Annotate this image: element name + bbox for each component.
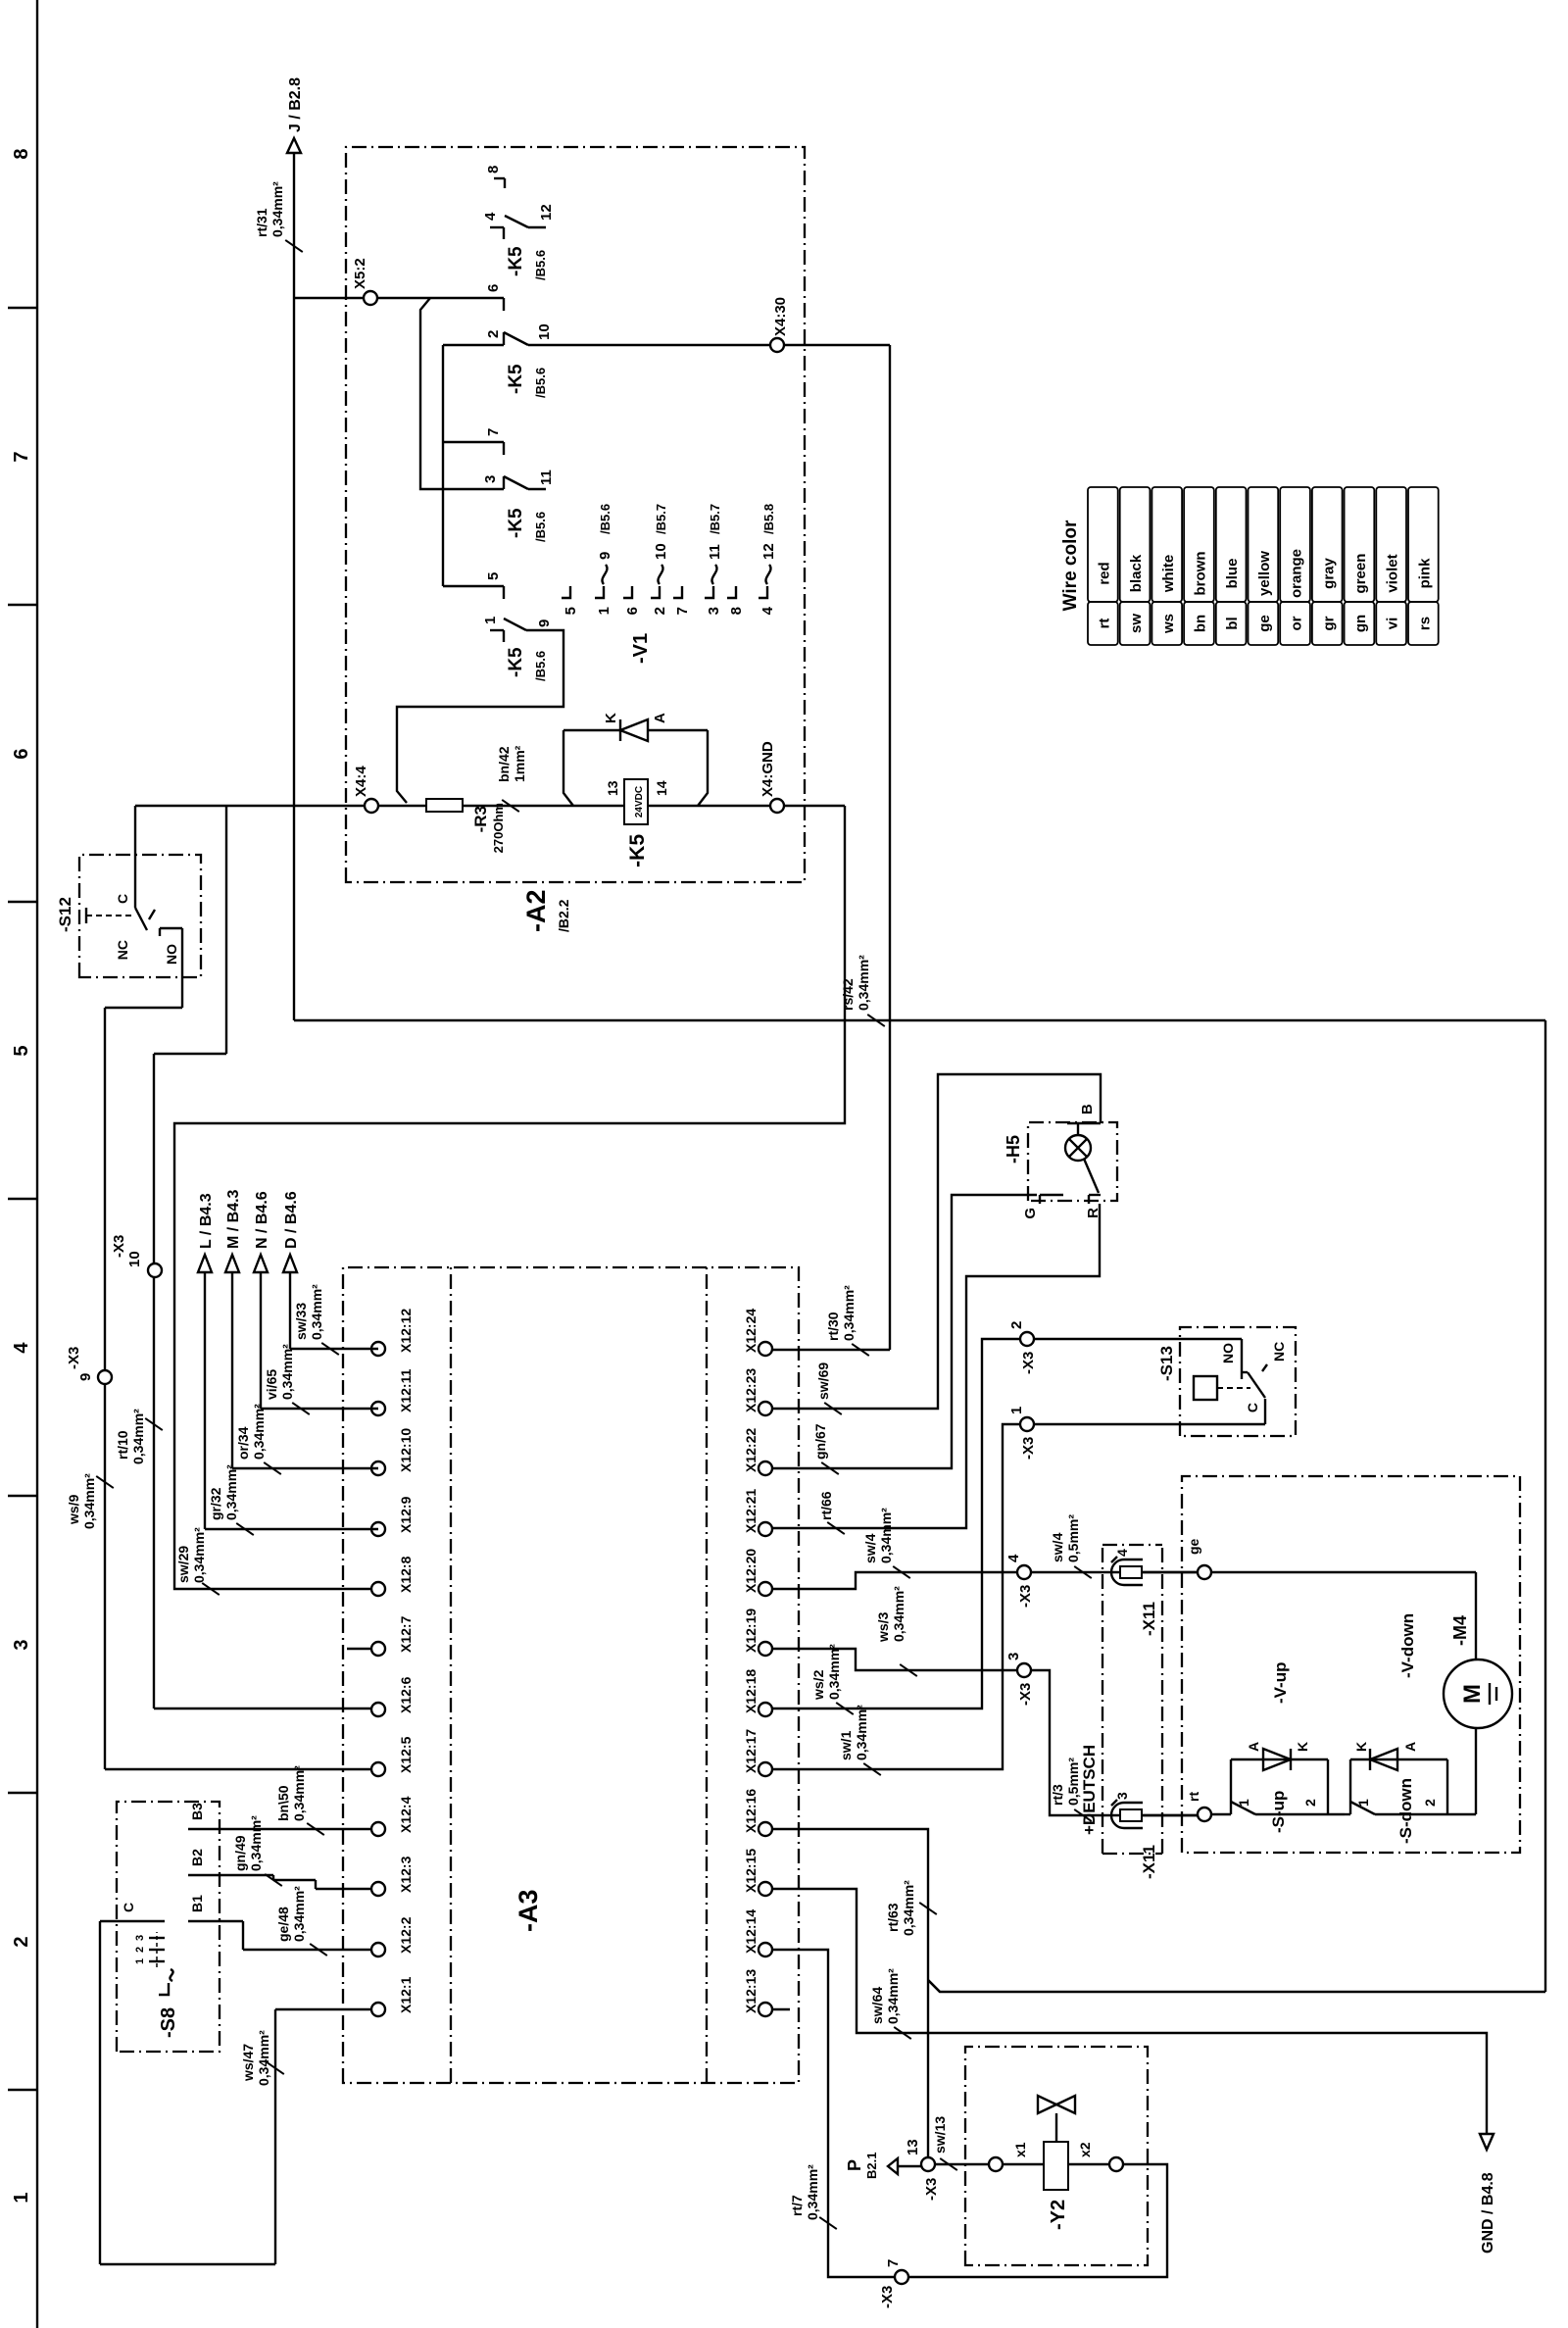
svg-text:0,34mm²: 0,34mm² — [805, 2164, 820, 2220]
svg-text:0,34mm²: 0,34mm² — [251, 1404, 267, 1460]
svg-text:-Y2: -Y2 — [1048, 2200, 1069, 2230]
wire gauge mark ws/9 0,34mm2 — [66, 1473, 114, 1529]
valve symbol — [1038, 2096, 1075, 2142]
terminal X12:7 stub — [347, 1648, 371, 1650]
svg-text:1: 1 — [11, 2192, 32, 2203]
terminal X4:GND — [759, 741, 784, 813]
svg-text:-K5: -K5 — [506, 508, 526, 538]
wire S12 NO to X3:9 (ws/9) — [105, 928, 378, 1769]
module box A2 (dash-dot) — [346, 147, 805, 882]
terminal X3:9 — [66, 1347, 112, 1384]
wire 24V bus (X4:4 to X4:GND) — [135, 805, 845, 807]
svg-text:X12:20: X12:20 — [743, 1549, 759, 1593]
wire X12:21 to H5 R (rt/66) — [772, 1204, 1100, 1528]
terminal X4:4 — [353, 766, 378, 813]
svg-text:ge: ge — [1256, 615, 1273, 632]
svg-text:7: 7 — [11, 451, 32, 462]
svg-text:rt/7: rt/7 — [789, 2195, 805, 2216]
wire 24V supply to J/B2.8 — [293, 153, 295, 1020]
switch S-down — [1345, 1799, 1476, 1814]
svg-text:-H5: -H5 — [1004, 1135, 1023, 1164]
svg-text:sw/1: sw/1 — [838, 1730, 854, 1760]
wire link pins 5-7-2 of K5 — [443, 345, 504, 586]
svg-text:4: 4 — [1114, 1549, 1130, 1557]
sensor S8 pins 1 2 3 — [134, 1932, 165, 1967]
svg-text:-X3: -X3 — [879, 2286, 896, 2308]
arrow L / B4.3 — [198, 1193, 215, 1272]
svg-text:0,34mm²: 0,34mm² — [885, 1968, 901, 2024]
wire gauge mark rt/3 0,5mm2 — [1050, 1758, 1092, 1821]
module box A3 (dash-dot) — [343, 1267, 799, 2083]
wire gauge mark rt/63 0,34mm2 — [885, 1880, 937, 1936]
svg-text:x2: x2 — [1077, 2142, 1093, 2157]
svg-text:A: A — [652, 713, 668, 723]
svg-text:-A2: -A2 — [521, 889, 551, 932]
svg-text:rs: rs — [1416, 617, 1433, 630]
svg-text:ws: ws — [1160, 614, 1177, 634]
diode V-down (K top, A bottom) — [1353, 1742, 1418, 1770]
relay socket V1 pin diagram — [562, 504, 777, 615]
svg-text:B1: B1 — [189, 1895, 205, 1912]
switch S13 NC tick — [1262, 1342, 1287, 1371]
solenoid coil Y2 — [1003, 2142, 1109, 2190]
svg-text:3: 3 — [706, 607, 722, 615]
svg-text:vi: vi — [1385, 618, 1401, 630]
svg-text:B: B — [1079, 1104, 1096, 1114]
svg-text:X12:10: X12:10 — [398, 1428, 414, 1472]
wire gauge mark bn/42 1mm2 — [496, 745, 527, 812]
wire gauge mark gr/32 0,34mm2 — [208, 1464, 254, 1535]
label -X11 (pin 3) — [1140, 1845, 1158, 1879]
svg-text:ws/9: ws/9 — [66, 1494, 81, 1525]
wire X12:22 to H5 G (gn/67) — [772, 1195, 1037, 1468]
label -R3 270Ohm — [471, 803, 506, 853]
relay contact K5 3/11 — [482, 470, 555, 489]
svg-text:5: 5 — [11, 1045, 32, 1056]
svg-text:X12:7: X12:7 — [398, 1615, 414, 1653]
switch box S13 (dash-dot) — [1180, 1327, 1296, 1436]
wire S8 C terminal (ws/47) to X12:1 — [100, 1903, 371, 2264]
lamp box H5 (dash-dot) — [1028, 1122, 1117, 1201]
svg-text:D / B4.6: D / B4.6 — [283, 1191, 300, 1249]
svg-text:0,5mm²: 0,5mm² — [1065, 1514, 1081, 1562]
svg-text:X12:13: X12:13 — [743, 1969, 759, 2013]
label -Y2 — [1048, 2200, 1069, 2230]
svg-text:X12:19: X12:19 — [743, 1609, 759, 1653]
svg-text:white: white — [1160, 555, 1177, 593]
svg-text:X12:15: X12:15 — [743, 1849, 759, 1893]
lamp H5 G terminal — [1022, 1195, 1063, 1219]
svg-text:orange: orange — [1289, 549, 1305, 598]
label -S12 — [56, 897, 74, 932]
switch S13 sensor square — [1194, 1376, 1217, 1400]
svg-text:+DEUTSCH: +DEUTSCH — [1080, 1745, 1099, 1835]
label -V1 — [630, 633, 652, 664]
switch S13 actuator dashed — [1217, 1387, 1250, 1389]
svg-text:rt/30: rt/30 — [825, 1312, 841, 1341]
wire gauge mark sw/29 0,34mm2 — [175, 1527, 220, 1595]
svg-text:A: A — [1246, 1742, 1261, 1752]
wire gauge mark rt/10 0,34mm2 — [115, 1409, 163, 1464]
svg-text:X12:18: X12:18 — [743, 1669, 759, 1713]
arrow GND / B4.8 — [1480, 2134, 1496, 2254]
svg-text:gn/49: gn/49 — [232, 1835, 248, 1871]
svg-text:X12:24: X12:24 — [743, 1309, 759, 1353]
svg-text:x1: x1 — [1012, 2142, 1028, 2157]
svg-text:7: 7 — [885, 2259, 902, 2267]
svg-text:red: red — [1096, 562, 1112, 584]
svg-text:9: 9 — [77, 1373, 94, 1381]
svg-text:K: K — [603, 713, 619, 723]
label -H5 — [1004, 1135, 1023, 1164]
svg-text:sw/64: sw/64 — [869, 1987, 885, 2024]
svg-text:3: 3 — [1005, 1653, 1022, 1660]
wire S8 B2 (gn/49) to X12:3 — [188, 1849, 371, 1889]
valve box Y2 (dash-dot) — [965, 2047, 1148, 2265]
label -K5 /B5.6 (contact 4/12) — [506, 246, 548, 280]
relay coil K5 24VDC — [605, 779, 669, 824]
svg-text:-X3: -X3 — [1020, 1437, 1037, 1460]
svg-text:0,34mm²: 0,34mm² — [81, 1473, 97, 1529]
svg-text:4: 4 — [759, 606, 776, 615]
wire gauge mark ws/3 0,34mm2 — [875, 1586, 917, 1676]
arrow N / B4.6 — [254, 1191, 270, 1272]
svg-text:13: 13 — [605, 780, 620, 796]
svg-text:NO: NO — [1220, 1343, 1236, 1363]
label -V-up — [1271, 1662, 1290, 1705]
svg-text:/B5.6: /B5.6 — [533, 250, 548, 280]
svg-text:-X3: -X3 — [923, 2178, 940, 2201]
wire gauge mark bn\50 0,34mm2 — [275, 1765, 324, 1835]
wire gauge mark vi/65 0,34mm2 — [264, 1344, 310, 1414]
diode V1 flyback (K top, A bottom) — [603, 713, 668, 741]
svg-text:/B5.6: /B5.6 — [598, 504, 612, 534]
svg-text:270Ohm: 270Ohm — [491, 803, 506, 853]
svg-text:rt/31: rt/31 — [254, 208, 269, 237]
svg-text:G: G — [1022, 1208, 1039, 1219]
svg-text:10: 10 — [536, 323, 553, 340]
svg-text:0,34mm²: 0,34mm² — [901, 1880, 916, 1936]
svg-text:-M4: -M4 — [1450, 1615, 1470, 1646]
svg-text:/B5.7: /B5.7 — [708, 504, 722, 534]
svg-text:ws/47: ws/47 — [240, 2044, 256, 2082]
svg-text:B2: B2 — [189, 1849, 205, 1866]
svg-text:/B5.6: /B5.6 — [533, 368, 548, 398]
svg-text:sw/69: sw/69 — [815, 1362, 831, 1400]
svg-text:ws/3: ws/3 — [875, 1611, 891, 1643]
svg-text:C: C — [115, 894, 130, 904]
svg-text:rt: rt — [1096, 619, 1112, 629]
svg-text:10: 10 — [653, 543, 669, 560]
wire gauge mark rs/42 0,34mm2 — [840, 955, 885, 1026]
svg-text:3: 3 — [482, 475, 499, 483]
wire X12:23 to H5 B (sw/69) — [772, 1074, 1101, 1409]
lamp H5 — [1065, 1135, 1091, 1161]
svg-text:green: green — [1352, 554, 1369, 594]
svg-text:-X3: -X3 — [1020, 1352, 1037, 1374]
svg-text:2: 2 — [652, 607, 668, 615]
svg-text:2: 2 — [485, 330, 502, 338]
wire gauge mark sw/13 — [932, 2116, 957, 2170]
svg-text:-K5: -K5 — [506, 647, 526, 677]
wire gauge mark sw/1 0,34mm2 — [838, 1705, 881, 1775]
wire X3:2 to S13 NO — [1034, 1339, 1242, 1372]
svg-text:B2.1: B2.1 — [864, 2153, 879, 2179]
wire X12:24 to X4:30 (rt/30) — [772, 1349, 890, 1351]
arrow P / B2.1 — [845, 2153, 921, 2179]
lamp H5 B terminal — [1067, 1104, 1101, 1135]
svg-text:0,34mm²: 0,34mm² — [130, 1409, 146, 1464]
wire X12:18 to X3:2 (ws/2) — [772, 1339, 1020, 1709]
svg-text:1: 1 — [482, 617, 499, 624]
label -A3 — [514, 1889, 543, 1932]
svg-text:J / B2.8: J / B2.8 — [287, 77, 304, 132]
svg-text:1: 1 — [1008, 1407, 1025, 1414]
svg-text:-S13: -S13 — [1157, 1346, 1176, 1381]
svg-text:bn/42: bn/42 — [496, 746, 512, 782]
svg-text:/B5.6: /B5.6 — [533, 512, 548, 542]
svg-text:/B2.2: /B2.2 — [556, 899, 571, 932]
svg-text:X12:22: X12:22 — [743, 1428, 759, 1472]
wire gauge mark rt/7 0,34mm2 — [789, 2164, 837, 2229]
svg-text:4: 4 — [482, 212, 499, 221]
label +DEUTSCH — [1080, 1745, 1099, 1835]
divider lines inside A3 — [451, 1267, 707, 2083]
svg-text:2: 2 — [1422, 1799, 1438, 1807]
svg-text:2: 2 — [1008, 1321, 1025, 1329]
svg-text:X12:3: X12:3 — [398, 1856, 414, 1893]
switch box S12 (dash-dot) — [79, 855, 201, 977]
svg-text:C: C — [1245, 1403, 1260, 1412]
svg-text:-S-down: -S-down — [1396, 1778, 1415, 1844]
svg-text:black: black — [1128, 554, 1145, 592]
svg-text:24VDC: 24VDC — [634, 786, 645, 817]
wire X12:19 to X3:3 (ws/3) — [772, 1649, 1017, 1670]
terminal Y2 x1 — [989, 2157, 1003, 2171]
labels X12:1-X12:12 — [398, 1309, 414, 2013]
lamp H5 R terminal and blade — [1084, 1159, 1102, 1218]
svg-text:X12:1: X12:1 — [398, 1976, 414, 2013]
svg-text:gr/32: gr/32 — [208, 1487, 223, 1520]
svg-text:-A3: -A3 — [514, 1889, 543, 1932]
diode V-down loop — [1350, 1759, 1447, 1814]
wire contact 10 to X4:30 — [528, 344, 770, 346]
svg-text:8: 8 — [728, 607, 745, 615]
svg-text:5: 5 — [485, 572, 502, 580]
svg-text:X12:12: X12:12 — [398, 1309, 414, 1353]
wire X12:20 to X3:4 (sw/4) — [772, 1572, 1017, 1589]
label -S8 — [158, 2007, 179, 2038]
svg-text:rt/63: rt/63 — [885, 1903, 901, 1932]
terminal X3:4 — [1005, 1554, 1034, 1608]
svg-text:rt/10: rt/10 — [115, 1430, 130, 1460]
svg-text:/B5.8: /B5.8 — [761, 504, 776, 534]
svg-text:0,34mm²: 0,34mm² — [854, 1705, 869, 1760]
labels X12:13-X12:24 — [743, 1309, 759, 2013]
svg-text:2: 2 — [134, 1947, 146, 1953]
wire gauge mark sw/4 0,34mm2 — [862, 1508, 910, 1578]
connector X11 pin 3 — [1111, 1792, 1143, 1828]
svg-text:ge/48: ge/48 — [275, 1907, 291, 1942]
svg-text:X12:4: X12:4 — [398, 1796, 414, 1833]
svg-text:X12:17: X12:17 — [743, 1729, 759, 1773]
svg-text:0,34mm²: 0,34mm² — [841, 1285, 857, 1341]
svg-text:A: A — [1402, 1742, 1418, 1752]
label -X11 (pin 4) — [1140, 1602, 1158, 1636]
wire branch to contact K5:3 — [420, 298, 504, 489]
svg-text:bl: bl — [1224, 617, 1241, 629]
terminal X12:13 stub — [772, 2008, 790, 2010]
label -V-down — [1398, 1613, 1417, 1678]
wire contact 9 to relay coil branch — [397, 630, 563, 803]
svg-text:-S12: -S12 — [56, 897, 74, 932]
svg-text:X12:23: X12:23 — [743, 1368, 759, 1412]
wire gauge mark rt/30 0,34mm2 — [825, 1285, 869, 1356]
junction rt — [1186, 1792, 1211, 1821]
svg-text:yellow: yellow — [1256, 551, 1273, 596]
wire branch rt/63 to rs/42 riser — [928, 1980, 940, 1992]
svg-text:/B5.7: /B5.7 — [654, 504, 668, 534]
svg-text:0,5mm²: 0,5mm² — [1065, 1758, 1081, 1806]
svg-text:X12:9: X12:9 — [398, 1496, 414, 1533]
relay contact K5 7 (fixed) — [443, 428, 504, 455]
terminal X3:7 — [879, 2259, 908, 2308]
arrow M / B4.3 — [225, 1189, 242, 1272]
label -S-down — [1396, 1778, 1415, 1844]
diode V-up loop — [1231, 1759, 1328, 1814]
svg-text:14: 14 — [654, 780, 669, 796]
label -M4 — [1450, 1615, 1470, 1646]
svg-text:K: K — [1295, 1742, 1310, 1752]
relay contact K5 5 (fixed) — [485, 572, 504, 599]
svg-text:L / B4.3: L / B4.3 — [198, 1193, 215, 1249]
svg-text:or: or — [1289, 616, 1305, 630]
wire gauge mark ge/48 0,34mm2 — [275, 1886, 327, 1956]
relay contact K5 4/12 — [482, 204, 555, 239]
wire X3:1 to S13 C — [1034, 1399, 1265, 1424]
switch S12 C contact and blade — [115, 806, 147, 930]
svg-text:-S8: -S8 — [158, 2007, 179, 2038]
svg-text:X12:6: X12:6 — [398, 1676, 414, 1713]
svg-text:X12:5: X12:5 — [398, 1736, 414, 1773]
svg-text:3: 3 — [134, 1935, 146, 1941]
relay contact K5 1/9 — [482, 617, 553, 642]
sensor box S8 (dash-dot) — [117, 1802, 220, 2052]
flyback diode loop wires — [563, 730, 708, 806]
sensor S8 symbol — [159, 1969, 173, 1995]
resistor R3 270Ohm — [426, 799, 463, 812]
svg-text:6: 6 — [485, 284, 502, 292]
arrow J / B2.8 — [287, 77, 304, 153]
svg-text:0,34mm²: 0,34mm² — [826, 1644, 842, 1700]
svg-text:gray: gray — [1320, 558, 1337, 589]
svg-text:0,34mm²: 0,34mm² — [256, 2030, 271, 2086]
svg-text:12: 12 — [538, 204, 555, 221]
svg-text:0,34mm²: 0,34mm² — [279, 1344, 295, 1400]
svg-text:P: P — [845, 2159, 864, 2171]
motor M4 — [1444, 1659, 1512, 1814]
wire color legend table — [1060, 487, 1439, 645]
svg-text:sw/29: sw/29 — [175, 1546, 191, 1583]
terminal X5:2 — [294, 258, 504, 305]
svg-text:rs/42: rs/42 — [840, 978, 856, 1011]
wire gauge mark ws/47 0,34mm2 — [240, 2030, 284, 2086]
svg-text:8: 8 — [485, 166, 502, 173]
svg-text:violet: violet — [1385, 554, 1401, 592]
wire gauge mark sw/69 — [815, 1362, 842, 1414]
svg-text:N / B4.6: N / B4.6 — [254, 1191, 270, 1249]
svg-text:11: 11 — [707, 544, 723, 560]
svg-text:9: 9 — [536, 619, 553, 627]
svg-text:M: M — [1459, 1684, 1486, 1704]
svg-text:0,34mm²: 0,34mm² — [856, 955, 871, 1011]
terminal row X12:1-X12:12 — [371, 1342, 385, 2016]
svg-text:X12:16: X12:16 — [743, 1789, 759, 1833]
arrow D / B4.6 — [283, 1191, 300, 1272]
wire X12:15 to GND (sw/64) — [772, 1889, 1487, 2136]
wire X12 to arrow L (gr/32) — [205, 1272, 378, 1529]
switch S12 NC tick — [115, 910, 155, 960]
svg-text:gn/67: gn/67 — [812, 1423, 828, 1460]
wire X12 to arrow N (vi/65) — [261, 1272, 378, 1409]
svg-text:-X11: -X11 — [1140, 1602, 1158, 1636]
svg-text:0,34mm²: 0,34mm² — [248, 1815, 264, 1871]
svg-text:0,34mm²: 0,34mm² — [891, 1586, 906, 1642]
wire GND return bus — [174, 806, 845, 1589]
svg-text:9: 9 — [597, 552, 613, 560]
svg-text:R: R — [1085, 1208, 1102, 1218]
svg-text:X12:8: X12:8 — [398, 1556, 414, 1593]
wire rs/42 riser — [294, 1020, 1545, 1992]
svg-text:pink: pink — [1416, 558, 1433, 588]
switch S13 NO terminal — [1220, 1343, 1248, 1379]
wire gauge mark ws/2 0,34mm2 — [810, 1644, 854, 1714]
label -S-up — [1269, 1791, 1288, 1833]
wire X12 to arrow M (or/34) — [232, 1272, 378, 1468]
svg-text:X4:4: X4:4 — [353, 766, 369, 797]
wire X12:16 to X3:13 (rt/63) — [772, 1829, 928, 2157]
switch S13 blade — [1248, 1372, 1265, 1398]
svg-text:-V1: -V1 — [630, 633, 652, 664]
svg-text:2: 2 — [1302, 1799, 1318, 1807]
wire gauge mark gn/49 0,34mm2 — [232, 1815, 282, 1886]
label -S13 — [1157, 1346, 1176, 1381]
svg-text:-K5: -K5 — [506, 364, 526, 394]
svg-text:10: 10 — [126, 1251, 143, 1267]
svg-text:C: C — [121, 1903, 136, 1912]
svg-text:rt/66: rt/66 — [818, 1491, 834, 1520]
svg-text:-V-down: -V-down — [1398, 1613, 1417, 1678]
svg-text:0,34mm²: 0,34mm² — [291, 1886, 307, 1942]
svg-text:0,34mm²: 0,34mm² — [223, 1464, 239, 1520]
svg-text:1: 1 — [134, 1958, 146, 1964]
svg-text:4: 4 — [1005, 1554, 1022, 1562]
svg-text:X4:GND: X4:GND — [759, 741, 776, 797]
svg-text:0,34mm²: 0,34mm² — [269, 181, 285, 237]
wire S8 B1 (ge/48) to X12:2 — [188, 1895, 371, 1950]
svg-text:1: 1 — [596, 607, 612, 615]
svg-text:gn: gn — [1352, 615, 1369, 632]
label -A2 /B2.2 — [521, 889, 571, 932]
svg-text:7: 7 — [674, 607, 691, 615]
switch S12 actuator plunger — [86, 908, 131, 923]
wire X4:30 to X12:24 (rt/30 net) — [889, 345, 891, 1350]
connector X11 pin 4 — [1111, 1549, 1143, 1585]
wire X12:17 to X3:1 (sw/1) — [772, 1424, 1020, 1769]
ruler ticks — [8, 308, 37, 2090]
svg-text:or/34: or/34 — [235, 1426, 251, 1460]
svg-text:11: 11 — [538, 470, 555, 485]
